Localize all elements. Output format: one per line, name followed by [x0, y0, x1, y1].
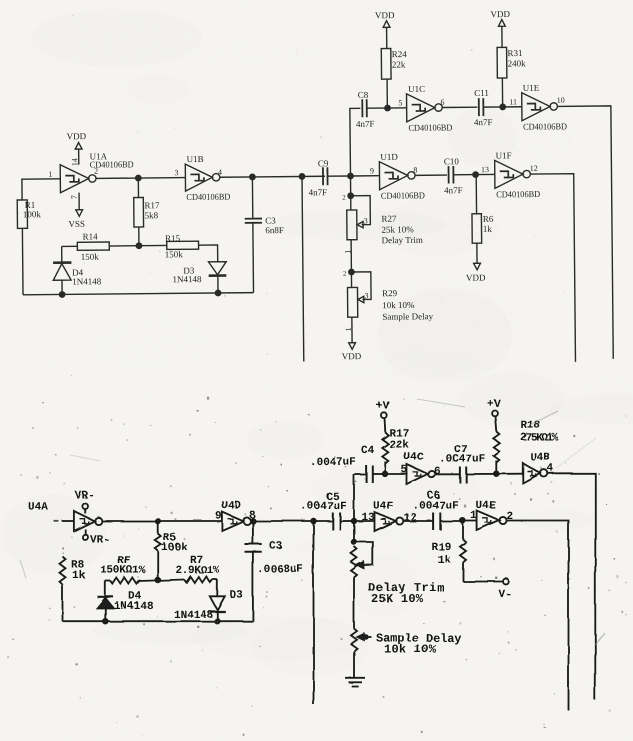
diode D4	[53, 246, 102, 294]
potentiometer Delay Trim	[351, 539, 444, 628]
ground	[345, 677, 365, 686]
wire row2 right	[354, 520, 375, 522]
resistor R24	[375, 10, 408, 108]
wire bottom rail	[23, 293, 253, 295]
capacitor C3	[244, 521, 303, 621]
capacitor C8	[356, 90, 388, 129]
wire U1A out to U1B	[96, 177, 185, 180]
node pot column	[351, 518, 356, 523]
resistor R19	[431, 520, 512, 601]
capacitor C11	[474, 88, 503, 127]
node R17	[382, 471, 387, 476]
capacitor C3	[244, 177, 284, 293]
diode D4	[97, 581, 154, 621]
resistor R8	[59, 547, 85, 621]
op-amp U1A	[48, 151, 134, 193]
resistor R5	[154, 521, 187, 580]
op-amp U4D	[215, 500, 256, 531]
resistor R1	[17, 200, 42, 295]
wire U4B out right and down	[547, 473, 595, 700]
wire pot column vertical	[353, 474, 355, 542]
capacitor C6	[412, 490, 477, 530]
op-amp U4E	[470, 500, 513, 530]
wire U4D out	[250, 520, 332, 522]
op-amp U1F	[481, 150, 541, 199]
op-amp U4F	[361, 500, 416, 531]
wire U1A input	[22, 179, 61, 200]
resistor R18	[487, 398, 558, 473]
resistor RF	[100, 555, 184, 584]
wire left vertical	[312, 521, 314, 705]
capacitor C5	[300, 491, 354, 530]
node after C9	[348, 173, 353, 178]
node R5 bottom	[155, 577, 160, 582]
op-amp U4B	[522, 452, 553, 483]
wire node to U1C	[388, 107, 407, 109]
resistor R7	[175, 555, 219, 596]
resistor R17	[376, 400, 409, 474]
capacitor C9	[308, 158, 350, 197]
pin 14 VDD lead	[67, 131, 87, 166]
wire U4F out	[403, 520, 433, 522]
wire up to C8	[350, 108, 361, 176]
wire C9 node to U1D	[350, 175, 379, 177]
wire node to U1F	[476, 173, 495, 175]
wire U4C out	[435, 473, 460, 475]
resistor R14	[77, 231, 109, 262]
wire node down	[350, 178, 352, 210]
resistor R17	[134, 178, 161, 246]
wire U1F out right and down	[530, 174, 575, 363]
potentiometer R27	[342, 193, 423, 288]
node R5	[155, 518, 160, 523]
diode D3	[172, 262, 226, 294]
wire node to U1E	[503, 106, 522, 108]
resistor R6	[465, 174, 494, 282]
op-amp U1C	[398, 84, 453, 133]
wire bottom rail	[62, 620, 252, 622]
node C3 branch	[250, 518, 255, 523]
wire U4E out right and down	[506, 520, 568, 710]
wire row1 corner from pot column	[354, 473, 366, 475]
resistor R15	[165, 233, 199, 259]
op-amp U4C	[401, 451, 441, 484]
diode D3	[173, 590, 243, 622]
wire U1B out	[220, 176, 325, 177]
wire R14 R15 row	[62, 245, 78, 247]
resistor R31	[490, 9, 526, 107]
power VDD below R29	[342, 343, 362, 362]
node pot chain top	[348, 193, 353, 198]
wire U1C out to C11	[442, 106, 477, 108]
capacitor C10	[444, 156, 476, 195]
op-amp U1E	[509, 83, 567, 132]
potentiometer Sample Delay	[351, 628, 461, 677]
op-amp U1B	[174, 154, 231, 202]
node left vertical	[299, 174, 304, 179]
wire U4A out	[101, 520, 221, 522]
node left vertical	[311, 518, 316, 523]
node R19	[460, 518, 465, 523]
op-amp U1D	[370, 151, 426, 200]
pin 7 VSS lead	[68, 193, 85, 229]
node R31	[500, 104, 505, 109]
capacitor C4	[310, 445, 385, 483]
capacitor C7	[439, 444, 523, 483]
node pot chain mid	[349, 269, 354, 274]
node R6	[473, 172, 478, 177]
wire left vertical drop	[302, 176, 304, 361]
node junction	[136, 175, 141, 180]
node R18	[494, 471, 499, 476]
potentiometer R29	[343, 269, 434, 343]
wire node to U4C	[385, 473, 407, 475]
node R24	[385, 105, 390, 110]
node C3 branch	[250, 174, 255, 179]
wire U1E out right and down	[557, 106, 613, 360]
wire U1D out to C10	[415, 174, 447, 176]
op-amp U4A	[28, 490, 110, 547]
